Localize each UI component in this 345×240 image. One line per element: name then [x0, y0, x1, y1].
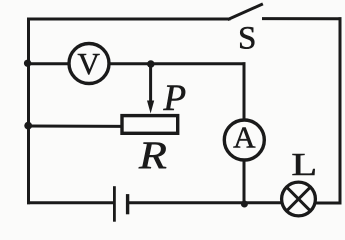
svg-text:L: L — [291, 148, 317, 183]
svg-text:V: V — [78, 46, 101, 81]
svg-text:S: S — [238, 21, 256, 57]
svg-text:R: R — [138, 134, 167, 177]
svg-text:P: P — [163, 78, 187, 119]
svg-text:A: A — [233, 120, 256, 155]
